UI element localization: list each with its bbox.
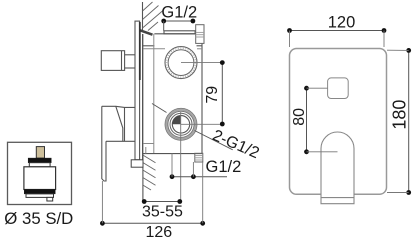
dimension 80 <box>291 86 337 154</box>
trim plate <box>290 49 387 195</box>
cartridge bottom band <box>24 190 55 194</box>
diverter stem (knob side view) <box>101 51 135 71</box>
body top-left flange step <box>143 45 154 47</box>
wall hatch (top) <box>143 2 164 31</box>
svg-text:80: 80 <box>291 108 308 126</box>
bottom outlet fitting G1/2 <box>195 153 203 162</box>
svg-text:79: 79 <box>204 86 221 104</box>
cartridge bottom tab <box>47 197 53 201</box>
body bottom edge <box>143 153 202 155</box>
top G1/2 label <box>161 4 197 31</box>
dimension 180 <box>387 48 411 195</box>
top circle centerline <box>181 62 222 64</box>
body right edge <box>201 43 203 153</box>
body seam lines <box>197 45 203 47</box>
body top plate <box>164 31 195 34</box>
plate bottom step <box>131 160 143 167</box>
wall break wedge <box>140 30 153 35</box>
dimension 120 <box>287 13 386 47</box>
wall hatch (bottom) <box>143 155 156 190</box>
bottom G1/2 label with leader <box>170 153 242 179</box>
cartridge cap (black ring nut) <box>28 158 51 167</box>
escutcheon plate (side view) <box>135 21 140 160</box>
bottom-left corner detail <box>145 147 147 154</box>
svg-text:180: 180 <box>390 100 410 130</box>
svg-text:Ø 35 S/D: Ø 35 S/D <box>4 209 73 228</box>
valve body outline <box>143 31 202 154</box>
cartridge body <box>24 167 56 190</box>
top outlet fitting G1/2 <box>196 25 204 44</box>
handle (side view lever) <box>102 106 135 181</box>
cartridge base <box>26 194 54 198</box>
wall line (mid segment) <box>142 34 144 160</box>
svg-text:35-55: 35-55 <box>142 204 183 221</box>
body left edge <box>153 34 155 154</box>
label 2-G1/2 with leader <box>152 104 262 163</box>
dimension 79 <box>204 60 225 126</box>
top port circle <box>165 47 197 79</box>
detail box frame <box>8 142 72 204</box>
body top edge <box>154 33 196 35</box>
svg-text:G1/2: G1/2 <box>206 158 242 176</box>
wall line (top segment) <box>142 2 144 31</box>
body bottom-left step line <box>143 143 154 145</box>
dimension 126 <box>100 162 205 241</box>
cartridge stem <box>36 147 44 159</box>
handle (front view) <box>321 132 354 204</box>
bottom circle centerlines <box>181 123 223 125</box>
dimension 35-55 <box>142 199 183 220</box>
svg-text:120: 120 <box>328 13 356 31</box>
wall line (bottom segment) <box>142 153 144 201</box>
diverter square button <box>328 78 349 99</box>
bottom port cross quarter <box>172 116 181 125</box>
plate back heavy edge <box>139 22 141 80</box>
svg-text:126: 126 <box>145 224 172 241</box>
bottom port circle <box>165 108 197 140</box>
